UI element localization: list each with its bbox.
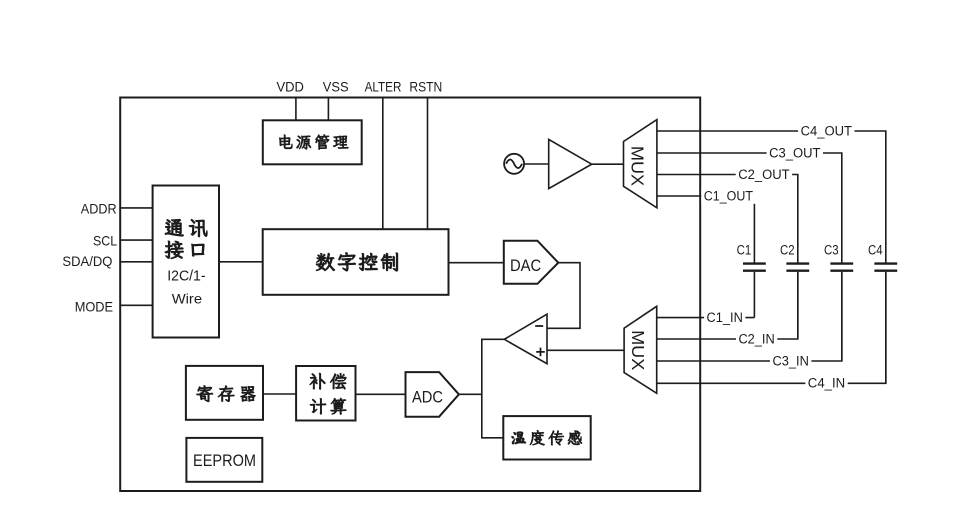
wire C2 bottom plate to C2_IN [797,272,799,339]
label 补偿 [310,373,325,389]
svg-text:DAC: DAC [510,257,542,275]
svg-text:C2: C2 [780,243,795,258]
svg-text:SCL: SCL [93,233,117,249]
power management block [263,120,362,164]
wire C2_IN net [657,272,798,339]
compensation calc block [296,366,355,421]
label 寄存器 [197,386,213,402]
communication interface block [153,186,219,338]
wire oscillator to amplifier [524,163,549,165]
svg-text:C4_IN: C4_IN [808,376,845,391]
wire comm to digital control [219,261,263,263]
svg-text:VDD: VDD [276,80,304,95]
digital control block [263,229,449,295]
capacitor C1 [743,262,766,264]
svg-text:Wire: Wire [172,291,202,307]
label C3_IN [770,354,811,369]
wire C3_OUT net [657,153,842,263]
label 温度传感 [512,432,526,444]
svg-text:C4: C4 [868,243,883,258]
svg-text:C1_OUT: C1_OUT [704,188,753,203]
temperature sensor block [503,416,590,459]
wire register to compensation [263,393,296,395]
wire compensation to ADC [356,393,406,395]
wire C3_IN net [657,272,842,361]
wire C1_IN net [657,317,755,319]
label C4_IN [805,377,847,392]
svg-text:SDA/DQ: SDA/DQ [62,253,112,269]
capacitor C3 [830,262,853,264]
label C3_OUT [767,146,823,161]
wire digital control to DAC [449,262,504,264]
EEPROM block [186,438,262,482]
label C1_IN [704,311,745,326]
svg-text:C1: C1 [737,243,752,258]
wire MODE pin [120,304,152,306]
wire C1 bottom plate to C1_IN [753,272,755,318]
comparator plus sign [536,348,545,357]
amplifier buffer [549,139,592,188]
oscillator source [504,154,524,174]
wire C2_OUT net [657,175,798,263]
label 通讯 [165,219,183,236]
svg-text:RSTN: RSTN [409,80,442,95]
wire C4 bottom plate to C4_IN [885,272,887,383]
svg-text:C3_OUT: C3_OUT [769,145,820,160]
wire SCL pin [120,239,152,241]
svg-text:ALTER: ALTER [365,80,402,95]
register block [186,366,263,420]
capacitor C4 [874,262,897,264]
wire C1_OUT net [657,196,755,263]
wire VSS pin to power block [327,98,329,121]
DAC block [504,241,559,284]
wire comparator output to ADC and temp sensor [482,339,505,438]
svg-text:C2_IN: C2_IN [738,331,774,346]
svg-text:MUX: MUX [628,146,648,187]
svg-text:I2C/1-: I2C/1- [167,268,205,285]
label 计算 [310,398,326,414]
wire VDD pin to power block [295,98,297,121]
label C2_OUT [736,168,792,183]
wire ALTER pin to digital control [382,98,384,230]
label 数字控制 [316,253,335,270]
comparator minus sign [535,325,543,327]
wire RSTN pin to digital control [427,98,429,230]
ADC block [406,372,459,417]
wire ADDR pin [120,207,152,209]
label 电源管理 [279,135,292,149]
chip boundary U1 [120,98,700,492]
MUX1 output multiplexer [624,120,657,208]
svg-text:VSS: VSS [323,80,349,95]
svg-text:C3_IN: C3_IN [773,353,809,368]
svg-text:ADC: ADC [412,388,443,406]
svg-text:C3: C3 [824,243,839,258]
comparator U2 [504,314,547,364]
svg-text:MODE: MODE [75,299,113,315]
label C1_OUT [701,189,755,204]
svg-text:C1_IN: C1_IN [707,310,743,325]
wire amplifier to MUX1 [592,163,624,165]
wire ADC output [459,393,482,395]
label C2_IN [736,332,777,347]
wire C3 bottom plate to C3_IN [841,272,843,361]
capacitor C2 [786,262,809,264]
svg-text:C2_OUT: C2_OUT [738,167,789,182]
wire DAC output to comparator minus [547,263,580,329]
wire comparator plus input from MUX [547,349,624,351]
svg-text:C4_OUT: C4_OUT [801,123,852,138]
MUX2 input multiplexer [624,306,657,393]
svg-text:MUX: MUX [628,330,648,371]
wire C4_IN net [657,272,886,383]
label C4_OUT [798,124,854,139]
svg-text:ADDR: ADDR [81,201,117,217]
wire C4_OUT net [657,131,886,263]
wire SDA/DQ pin [120,261,152,263]
svg-text:EEPROM: EEPROM [193,452,256,470]
label 接口 [165,241,184,259]
